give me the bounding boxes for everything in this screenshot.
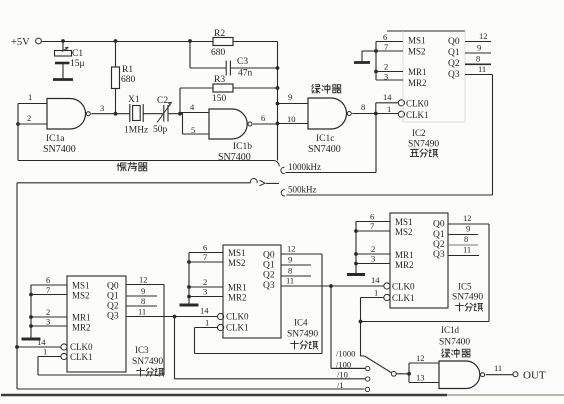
svg-text:MS1: MS1	[72, 281, 90, 291]
svg-text:OUT: OUT	[523, 370, 546, 382]
svg-text:12: 12	[139, 275, 148, 285]
svg-text:9: 9	[477, 43, 481, 53]
svg-text:IC2: IC2	[412, 128, 426, 138]
svg-text:CLK0: CLK0	[226, 312, 249, 322]
svg-text:Q1: Q1	[263, 261, 275, 271]
svg-text:MS1: MS1	[228, 248, 246, 258]
svg-text:Q0: Q0	[107, 282, 119, 292]
svg-text:6: 6	[370, 212, 374, 222]
svg-text:SN7400: SN7400	[218, 152, 251, 163]
svg-text:Q1: Q1	[433, 230, 445, 240]
svg-text:CLK1: CLK1	[70, 352, 93, 362]
svg-text:11: 11	[463, 245, 471, 255]
svg-text:MS2: MS2	[72, 291, 90, 301]
svg-text:9: 9	[288, 255, 292, 265]
svg-text:Q3: Q3	[263, 281, 275, 291]
svg-text:Q0: Q0	[433, 220, 445, 230]
svg-text:1: 1	[205, 318, 209, 328]
svg-text:11: 11	[478, 64, 486, 74]
svg-text:14: 14	[371, 275, 380, 285]
svg-text:3: 3	[384, 72, 388, 82]
svg-text:5: 5	[191, 125, 195, 135]
svg-text:12: 12	[287, 244, 296, 254]
svg-text:IC1a: IC1a	[46, 134, 65, 144]
svg-text:6: 6	[383, 32, 387, 42]
svg-text:1: 1	[387, 104, 391, 114]
svg-text:IC1d: IC1d	[441, 325, 460, 335]
svg-text:7: 7	[46, 285, 50, 295]
svg-text:6: 6	[203, 243, 207, 253]
svg-text:680: 680	[211, 48, 226, 58]
svg-text:12: 12	[463, 213, 472, 223]
svg-text:Q2: Q2	[263, 271, 275, 281]
svg-text:8: 8	[464, 234, 468, 244]
svg-text:IC5: IC5	[458, 282, 472, 292]
svg-text:CLK0: CLK0	[70, 342, 93, 352]
svg-text:Q2: Q2	[433, 240, 445, 250]
svg-text:8: 8	[141, 296, 145, 306]
svg-text:8: 8	[288, 266, 292, 276]
svg-text:CLK1: CLK1	[392, 293, 415, 303]
svg-text:R2: R2	[214, 29, 225, 39]
svg-text:Q0: Q0	[448, 37, 460, 47]
svg-text:1: 1	[43, 347, 47, 357]
svg-text:CLK1: CLK1	[226, 323, 249, 333]
svg-text:10: 10	[287, 114, 296, 124]
svg-text:2: 2	[46, 307, 50, 317]
svg-text:680: 680	[121, 75, 136, 85]
svg-text:8: 8	[476, 54, 480, 64]
svg-text:2: 2	[203, 277, 207, 287]
svg-text:Q3: Q3	[433, 250, 445, 260]
svg-text:2: 2	[27, 113, 31, 123]
svg-text:C1: C1	[72, 49, 83, 59]
svg-text:+5V: +5V	[11, 37, 30, 48]
svg-text:SN7490: SN7490	[287, 330, 318, 340]
svg-text:C2: C2	[157, 96, 168, 106]
svg-text:500kHz: 500kHz	[288, 185, 317, 195]
svg-text:/1000: /1000	[336, 349, 355, 359]
svg-text:1: 1	[374, 288, 378, 298]
svg-text:14: 14	[37, 337, 46, 347]
svg-text:MS1: MS1	[395, 217, 413, 227]
svg-text:IC1b: IC1b	[233, 142, 252, 152]
svg-text:14: 14	[383, 92, 392, 102]
svg-text:50p: 50p	[153, 125, 168, 135]
svg-text:MS2: MS2	[395, 227, 413, 237]
svg-text:IC3: IC3	[135, 345, 149, 355]
svg-text:MR1: MR1	[72, 313, 91, 323]
svg-text:11: 11	[138, 307, 146, 317]
svg-text:7: 7	[370, 221, 374, 231]
svg-text:47n: 47n	[238, 69, 253, 79]
svg-text:9: 9	[466, 224, 470, 234]
svg-text:3: 3	[203, 287, 207, 297]
svg-text:MS1: MS1	[408, 36, 426, 46]
svg-text:3: 3	[100, 103, 104, 113]
svg-text:13: 13	[416, 373, 425, 383]
svg-text:CLK0: CLK0	[406, 98, 429, 108]
svg-text:Q1: Q1	[107, 292, 119, 302]
svg-text:MS2: MS2	[228, 258, 246, 268]
svg-text:3: 3	[371, 254, 375, 264]
svg-text:MS2: MS2	[408, 47, 426, 57]
svg-text:CLK0: CLK0	[392, 282, 415, 292]
svg-text:MR2: MR2	[395, 260, 414, 270]
svg-text:1: 1	[28, 92, 32, 102]
svg-text:/10: /10	[337, 370, 348, 380]
svg-text:X1: X1	[128, 95, 140, 105]
svg-text:14: 14	[200, 306, 209, 316]
svg-text:R1: R1	[122, 65, 133, 75]
svg-text:MR1: MR1	[395, 250, 414, 260]
svg-text:1000kHz: 1000kHz	[288, 162, 321, 172]
svg-text:MR2: MR2	[72, 323, 91, 333]
svg-text:Q2: Q2	[448, 59, 460, 69]
svg-text:15μ: 15μ	[70, 59, 85, 69]
svg-text:SN7490: SN7490	[132, 357, 163, 367]
svg-text:2: 2	[371, 244, 375, 254]
svg-text:Q1: Q1	[448, 48, 460, 58]
svg-text:7: 7	[384, 42, 388, 52]
svg-text:7: 7	[203, 252, 207, 262]
svg-text:Q3: Q3	[107, 312, 119, 322]
svg-text:Q0: Q0	[263, 251, 275, 261]
svg-text:SN7490: SN7490	[452, 293, 483, 303]
svg-text:IC1c: IC1c	[316, 134, 334, 144]
svg-text:MR2: MR2	[228, 293, 247, 303]
svg-text:MR2: MR2	[408, 78, 427, 88]
svg-text:1MHz: 1MHz	[124, 126, 148, 136]
svg-text:9: 9	[288, 92, 292, 102]
svg-text:SN7400: SN7400	[308, 144, 341, 155]
svg-text:MR1: MR1	[228, 283, 247, 293]
svg-text:11: 11	[494, 363, 502, 373]
svg-text:12: 12	[416, 353, 425, 363]
svg-text:8: 8	[361, 102, 365, 112]
svg-text:3: 3	[46, 317, 50, 327]
svg-text:11: 11	[286, 276, 294, 286]
svg-text:SN7400: SN7400	[43, 144, 76, 155]
svg-text:6: 6	[46, 275, 50, 285]
svg-text:CLK1: CLK1	[406, 110, 429, 120]
svg-text:C3: C3	[237, 57, 248, 67]
svg-text:12: 12	[479, 31, 488, 41]
svg-text:6: 6	[261, 113, 265, 123]
svg-text:/1: /1	[337, 380, 344, 390]
svg-text:Q3: Q3	[448, 70, 460, 80]
svg-text:SN7400: SN7400	[439, 338, 470, 348]
svg-text:Q2: Q2	[107, 302, 119, 312]
svg-text:9: 9	[141, 286, 145, 296]
svg-text:2: 2	[384, 62, 388, 72]
svg-text:IC4: IC4	[294, 318, 308, 328]
svg-text:R3: R3	[214, 75, 225, 85]
svg-text:SN7490: SN7490	[408, 140, 439, 150]
svg-text:150: 150	[212, 94, 227, 104]
svg-text:MR1: MR1	[408, 67, 427, 77]
svg-text:/100: /100	[336, 360, 351, 370]
